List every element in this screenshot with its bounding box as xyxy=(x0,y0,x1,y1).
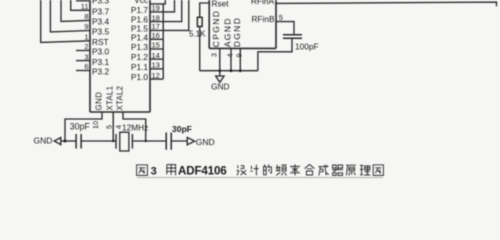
pin number ladder line xyxy=(162,4,164,79)
svg-text:9: 9 xyxy=(84,22,88,31)
pin 16 P1.4 stub xyxy=(150,38,163,40)
pin 8 P3.4 wire xyxy=(61,0,90,21)
svg-text:2: 2 xyxy=(84,42,88,51)
svg-text:14: 14 xyxy=(152,51,160,60)
MCU bottom pin names GND XTAL1 XTAL2 (vertical) xyxy=(95,86,125,111)
svg-text:P1.7: P1.7 xyxy=(131,5,148,15)
svg-text:GND: GND xyxy=(196,137,215,147)
pin 14 P1.2 stub xyxy=(150,58,163,60)
cut pin number 1 above Rset stub xyxy=(204,0,206,2)
svg-text:GND: GND xyxy=(34,136,53,146)
svg-text:5.1K: 5.1K xyxy=(189,29,206,38)
svg-text:4: 4 xyxy=(226,54,235,58)
svg-text:ADF4106: ADF4106 xyxy=(178,165,227,178)
capacitor C3 100pF plates xyxy=(283,35,302,38)
svg-text:5: 5 xyxy=(105,125,114,129)
svg-text:P1.0: P1.0 xyxy=(131,72,148,82)
svg-text:CPGND: CPGND xyxy=(211,10,221,48)
pin 20 Vcc wire xyxy=(150,0,165,4)
svg-text:AGND: AGND xyxy=(222,17,232,47)
svg-text:16: 16 xyxy=(152,31,160,40)
right ground terminal triangle xyxy=(187,137,195,144)
crystal Y1 12MHz plates xyxy=(116,134,132,149)
svg-text:30pF: 30pF xyxy=(70,122,91,132)
svg-text:11: 11 xyxy=(81,2,89,11)
junction XTAL2 at rail xyxy=(145,140,147,142)
junction CPGND at ground bus xyxy=(218,69,221,72)
svg-text:XTAL2: XTAL2 xyxy=(116,86,125,111)
svg-text:P1.1: P1.1 xyxy=(131,62,148,72)
MCU U1 AT89C2051 chip body xyxy=(90,0,150,112)
ground symbol triangle under ADF4106 xyxy=(216,76,224,82)
pin 3 P3.1 stub xyxy=(76,60,90,62)
svg-text:12: 12 xyxy=(152,71,160,80)
pin 7 P3.3 stub xyxy=(76,0,90,2)
pin 4 AGND wire xyxy=(230,48,232,70)
svg-text:XTAL1: XTAL1 xyxy=(106,86,115,111)
MCU left pin labels xyxy=(92,0,109,77)
svg-text:P3.7: P3.7 xyxy=(92,7,109,17)
pin 15 P1.3 stub xyxy=(150,48,163,50)
left ground terminal triangle xyxy=(54,138,61,145)
svg-text:GND: GND xyxy=(95,92,104,111)
svg-text:12MHz: 12MHz xyxy=(122,123,148,133)
svg-text:18: 18 xyxy=(152,13,160,22)
svg-text:100pF: 100pF xyxy=(295,42,319,52)
svg-text:8: 8 xyxy=(84,12,88,21)
resistor R1 5.1K body xyxy=(197,17,202,26)
pin 9 DGND wire xyxy=(239,48,241,70)
pin 18 P1.6 wire xyxy=(150,0,182,22)
svg-text:3: 3 xyxy=(210,53,219,57)
MCU bottom pin numbers 10 5 4 (rotated) xyxy=(91,121,123,129)
svg-text:6: 6 xyxy=(84,62,88,71)
svg-text:Rset: Rset xyxy=(212,0,230,9)
ground bus under ADF4106 xyxy=(200,70,258,72)
MCU left pin numbers xyxy=(81,2,89,71)
svg-text:RST: RST xyxy=(92,37,109,47)
svg-text:1: 1 xyxy=(84,33,88,42)
crystal Y1 body box xyxy=(120,132,129,151)
wire rail to right ground terminal xyxy=(171,140,187,142)
svg-text:P1.4: P1.4 xyxy=(131,32,148,42)
pin 11 P3.7 wire xyxy=(71,0,90,10)
ADF4106 U2 chip body xyxy=(209,0,276,48)
ground symbol stem under ADF4106 xyxy=(219,71,221,76)
junction AGND at ground bus xyxy=(230,69,233,72)
wire rail left segment xyxy=(61,140,76,142)
ADF4106 bottom pin names CPGND AGND DGND (vertical) xyxy=(211,10,242,48)
capacitor C2 30pF plates xyxy=(166,133,171,150)
svg-text:13: 13 xyxy=(152,61,160,70)
pin 17 P1.5 wire xyxy=(150,0,189,30)
Rset pin wire to resistor xyxy=(200,3,210,17)
svg-text:P3.4: P3.4 xyxy=(92,17,109,27)
caption underline artifact xyxy=(137,177,383,179)
MCU pin 4 XTAL2 wire xyxy=(123,112,146,141)
figure caption Chinese characters (vector glyph approximations) xyxy=(137,164,384,175)
svg-text:P1.3: P1.3 xyxy=(131,42,148,52)
pin 1 RST wire xyxy=(41,0,90,42)
junction MCU GND at rail xyxy=(64,140,67,143)
svg-text:5: 5 xyxy=(279,13,283,22)
cut pin number 6 above RFinA stub xyxy=(278,0,281,2)
ADF4106 bottom pin numbers 3 4 9 (rotated) xyxy=(210,53,244,58)
pin 6 P3.2 stub xyxy=(76,70,90,72)
svg-text:P3.1: P3.1 xyxy=(92,57,109,67)
pin 19 P1.7 wire xyxy=(150,0,175,12)
junction XTAL1 at rail xyxy=(112,140,114,142)
svg-text:P3.3: P3.3 xyxy=(92,0,109,5)
MCU pin 5 XTAL1 wire xyxy=(112,112,114,141)
svg-text:19: 19 xyxy=(152,4,160,13)
wire rail crystal to right capacitor xyxy=(132,140,166,142)
pin 13 P1.1 stub xyxy=(150,68,163,70)
svg-text:RFinB: RFinB xyxy=(251,14,275,24)
svg-text:30pF: 30pF xyxy=(172,124,192,134)
MCU right pin numbers in ladder xyxy=(152,4,160,80)
svg-text:3: 3 xyxy=(151,166,157,178)
pin 3 CPGND wire xyxy=(219,48,221,70)
pin 2 P3.0 stub xyxy=(76,50,90,52)
svg-text:RFinA: RFinA xyxy=(251,0,275,6)
svg-text:P3.5: P3.5 xyxy=(92,27,109,37)
svg-text:3: 3 xyxy=(84,52,88,61)
pin 5 RFinB wire to capacitor xyxy=(276,22,294,35)
ADF4106 pin labels xyxy=(212,0,283,24)
capacitor C1 30pF plates xyxy=(76,134,81,149)
svg-text:P1.2: P1.2 xyxy=(131,52,148,62)
svg-text:10: 10 xyxy=(91,121,100,129)
wire rail to crystal xyxy=(81,140,116,142)
svg-text:P3.0: P3.0 xyxy=(92,47,109,57)
svg-text:17: 17 xyxy=(152,22,160,31)
svg-text:GND: GND xyxy=(211,82,229,92)
pin 9 P3.5 wire xyxy=(50,0,90,32)
capacitor C3 lower wire to ground bus xyxy=(258,38,292,70)
MCU pin 10 GND wire to ground rail xyxy=(65,112,102,141)
pin 6 RFinA wire to right edge xyxy=(276,2,497,6)
svg-text:9: 9 xyxy=(235,54,244,58)
svg-text:DGND: DGND xyxy=(232,17,242,48)
resistor lower wire to ground bus xyxy=(199,27,201,71)
MCU right pin labels xyxy=(131,0,148,82)
pin 12 P1.0 stub xyxy=(150,78,163,80)
svg-text:15: 15 xyxy=(152,41,160,50)
junction DGND at ground bus xyxy=(239,69,242,72)
svg-text:P3.2: P3.2 xyxy=(92,67,109,77)
